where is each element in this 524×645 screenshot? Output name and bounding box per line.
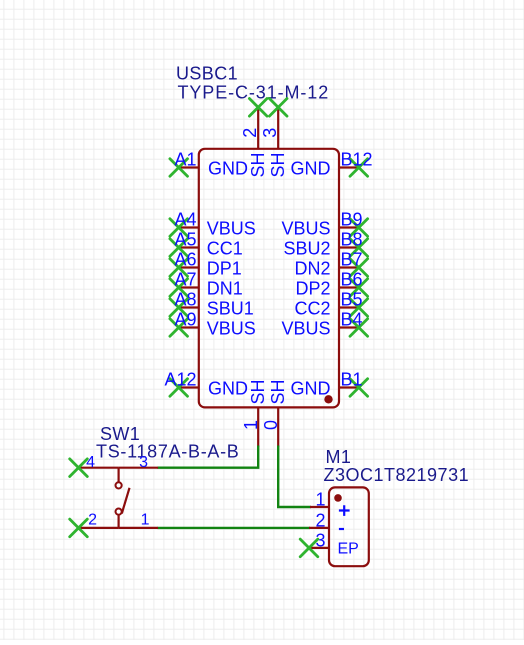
USBC1 pin A5 (CC1) with no-connect X <box>170 229 243 258</box>
USBC1 pin A9 (VBUS) with no-connect X <box>170 309 256 338</box>
svg-text:B9: B9 <box>341 209 363 229</box>
switch SW1 contact body (circles and lever) <box>116 468 130 528</box>
M1 pin-1 orientation dot <box>334 494 342 502</box>
svg-text:1: 1 <box>141 512 150 529</box>
USBC1 pin B4 (VBUS) with no-connect X <box>281 309 367 338</box>
svg-text:2: 2 <box>240 128 260 138</box>
svg-text:GND: GND <box>291 379 331 399</box>
USBC1 pin-1 orientation dot <box>324 395 332 403</box>
switch SW1 pin 1 (right bottom) <box>119 512 158 529</box>
svg-text:VBUS: VBUS <box>281 219 330 239</box>
USBC1 pin B12 (GND) with no-connect X <box>291 149 373 178</box>
switch SW1 pin 4 (left top) with no-connect X <box>70 454 119 477</box>
svg-text:A8: A8 <box>174 289 196 309</box>
svg-text:3: 3 <box>139 454 148 471</box>
USBC1 shield pin 2 (SH, top) with no-connect X <box>240 99 268 178</box>
svg-text:VBUS: VBUS <box>207 319 256 339</box>
svg-text:DN2: DN2 <box>294 259 330 279</box>
svg-text:VBUS: VBUS <box>281 319 330 339</box>
svg-text:A6: A6 <box>174 249 196 269</box>
svg-text:A1: A1 <box>174 149 196 169</box>
USBC1 pin A4 (VBUS) with no-connect X <box>170 209 256 238</box>
USBC1 shield pin 3 (SH, top) with no-connect X <box>260 99 288 178</box>
svg-text:SH: SH <box>248 152 268 177</box>
svg-text:A9: A9 <box>174 309 196 329</box>
svg-text:SH: SH <box>268 152 288 177</box>
wire from USBC1 SH pin 0 down to M1 pin 1 <box>278 446 311 508</box>
svg-text:M1: M1 <box>326 447 352 467</box>
svg-text:GND: GND <box>208 159 248 179</box>
USBC1 pin B1 (GND) with no-connect X <box>291 369 368 398</box>
USBC1 pin B9 (VBUS) with no-connect X <box>281 209 367 238</box>
USBC1 pin A12 (GND) with no-connect X <box>164 369 248 398</box>
svg-text:A12: A12 <box>164 369 196 389</box>
USBC1 pin B6 (DP2) with no-connect X <box>295 269 367 298</box>
svg-text:GND: GND <box>291 159 331 179</box>
svg-text:TYPE-C-31-M-12: TYPE-C-31-M-12 <box>178 83 330 103</box>
svg-text:4: 4 <box>86 454 95 471</box>
svg-text:CC1: CC1 <box>207 239 243 259</box>
svg-text:A5: A5 <box>174 229 196 249</box>
svg-text:B1: B1 <box>341 369 363 389</box>
USBC1 pin A8 (SBU1) with no-connect X <box>170 289 254 318</box>
svg-text:DP1: DP1 <box>207 259 242 279</box>
USBC1 pin B8 (SBU2) with no-connect X <box>283 229 367 258</box>
svg-text:B12: B12 <box>341 149 373 169</box>
svg-text:VBUS: VBUS <box>207 219 256 239</box>
M1 pin 2 (-) <box>309 510 344 530</box>
svg-text:DN1: DN1 <box>207 279 243 299</box>
M1 pin 3 (EP) with no-connect X <box>300 530 359 557</box>
svg-text:0: 0 <box>261 420 281 430</box>
svg-text:A4: A4 <box>174 209 196 229</box>
svg-text:SH: SH <box>268 379 288 404</box>
wire from USBC1 SH pin 1 down-left to SW1 pin 3 <box>158 446 259 468</box>
svg-text:3: 3 <box>315 530 325 550</box>
svg-text:2: 2 <box>88 512 97 529</box>
svg-text:3: 3 <box>260 128 280 138</box>
svg-text:Z3OC1T8219731: Z3OC1T8219731 <box>324 465 470 485</box>
svg-text:B8: B8 <box>341 229 363 249</box>
wire from SW1 pin 1 to M1 pin 2 <box>158 527 311 529</box>
svg-text:1: 1 <box>241 420 261 430</box>
svg-text:DP2: DP2 <box>295 279 330 299</box>
svg-text:1: 1 <box>315 490 325 510</box>
USBC1 pin A7 (DN1) with no-connect X <box>170 269 243 298</box>
svg-text:USBC1: USBC1 <box>176 64 238 84</box>
switch SW1 pin 3 (right top) <box>119 454 158 471</box>
svg-text:B5: B5 <box>341 289 363 309</box>
svg-text:CC2: CC2 <box>294 299 330 319</box>
USBC1 shield pin 1 (SH, bottom) <box>241 379 268 446</box>
USBC1 pin A1 (GND) with no-connect X <box>170 149 248 178</box>
USBC1 pin B7 (DN2) with no-connect X <box>294 249 367 278</box>
USBC1 pin B5 (CC2) with no-connect X <box>294 289 367 318</box>
svg-text:B4: B4 <box>341 309 363 329</box>
svg-text:B7: B7 <box>341 249 363 269</box>
svg-text:SBU2: SBU2 <box>283 239 330 259</box>
connector USBC1 body <box>199 149 339 408</box>
M1 pin 1 (+) <box>310 490 350 516</box>
svg-text:SBU1: SBU1 <box>207 299 254 319</box>
svg-text:2: 2 <box>315 510 325 530</box>
svg-text:A7: A7 <box>174 269 196 289</box>
switch SW1 pin 2 (left bottom) with no-connect X <box>70 512 119 537</box>
svg-text:TS-1187A-B-A-B: TS-1187A-B-A-B <box>96 442 240 462</box>
svg-text:EP: EP <box>338 541 359 558</box>
svg-text:GND: GND <box>208 379 248 399</box>
USBC1 shield pin 0 (SH, bottom) <box>261 379 288 446</box>
svg-text:SH: SH <box>248 379 268 404</box>
IC M1 body <box>329 487 369 566</box>
svg-text:B6: B6 <box>341 269 363 289</box>
USBC1 pin A6 (DP1) with no-connect X <box>170 249 242 278</box>
